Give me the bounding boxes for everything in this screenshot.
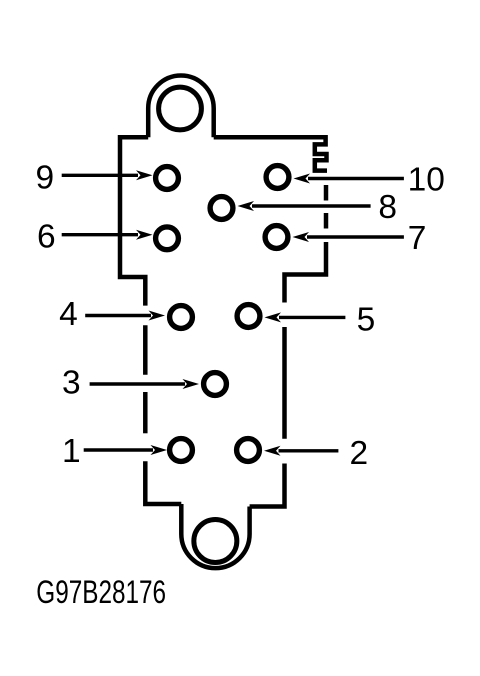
pin 1 [170,439,193,462]
top mounting hole [159,87,202,130]
arrow to pin 4 [85,311,165,321]
arrow to pin 7 [293,232,404,242]
wire left edge segment below pin3 arrow [143,392,148,433]
wire right edge dash [324,213,329,229]
svg-text:3: 3 [62,365,81,402]
svg-text:5: 5 [357,302,376,339]
bottom mounting hole [194,520,237,563]
wire left edge bottom segment [145,461,181,504]
arrow to pin 8 [238,201,371,211]
pin 10 [266,166,289,189]
pin 3 [204,373,227,396]
svg-text:7: 7 [408,220,427,257]
wire connector body outline upper-left [120,137,148,305]
arrow to pin 5 [265,312,346,322]
arrow to pin 2 [264,446,338,456]
pin 7 [265,226,288,249]
svg-text:9: 9 [35,159,54,196]
svg-text:4: 4 [59,296,78,333]
svg-text:10: 10 [408,162,445,199]
wire right edge segment below pin2 arrow gap [282,327,287,439]
svg-text:G97B28176: G97B28176 [36,575,166,611]
svg-text:8: 8 [378,189,397,226]
keying serration on right edge [214,137,327,170]
svg-text:1: 1 [62,433,81,470]
arrow to pin 10 [294,174,404,184]
wire left edge segment below pin4 arrow [143,325,148,374]
wire bottom-right edge [250,464,285,507]
wire right edge dash [324,185,329,201]
pin 2 [237,439,260,462]
arrow to pin 1 [84,445,167,455]
svg-text:2: 2 [349,435,368,472]
pin 8 [210,197,233,220]
pin 6 [156,227,179,250]
top mounting tab arch [148,75,214,137]
pin 4 [170,306,193,329]
arrow to pin 6 [62,230,153,240]
arrow to pin 3 [90,379,199,389]
pin 9 [156,167,179,190]
bottom mounting tab U-shape [181,504,249,568]
arrow to pin 9 [62,170,153,180]
svg-text:6: 6 [37,219,56,256]
pin 5 [237,305,260,328]
wire right edge with step [285,242,327,303]
